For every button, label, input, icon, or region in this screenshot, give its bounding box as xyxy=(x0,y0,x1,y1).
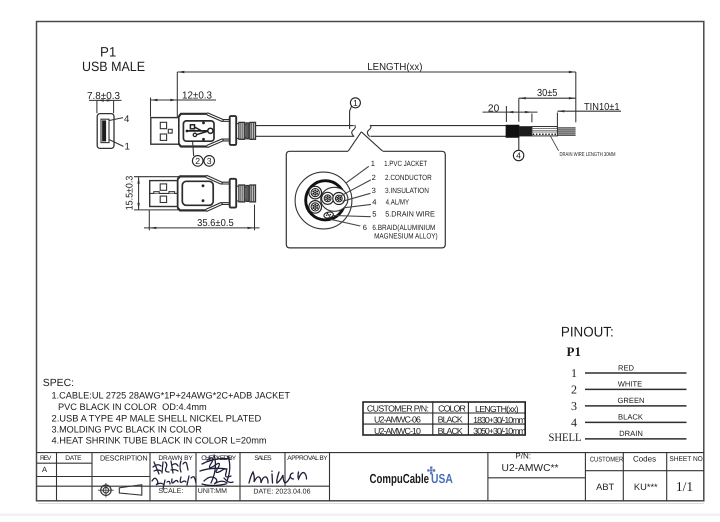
svg-text:DESCRIPTION: DESCRIPTION xyxy=(100,453,148,462)
overall dimension LENGTH(xx) xyxy=(177,62,576,123)
scale unit date xyxy=(158,488,310,496)
svg-text:SALES: SALES xyxy=(254,455,272,462)
svg-text:SHELL: SHELL xyxy=(549,432,582,444)
side view molded body outline xyxy=(178,176,207,210)
side view boot rib 2 xyxy=(246,186,249,202)
side view dimension 35.6±0.5 xyxy=(144,205,260,231)
side view screw dots xyxy=(202,184,205,202)
top view metal shell xyxy=(151,118,179,145)
svg-text:P/N:: P/N: xyxy=(515,452,531,461)
svg-text:30±5: 30±5 xyxy=(537,88,558,99)
balloon 4 xyxy=(513,150,523,160)
front view dimension 7.8±0.3 xyxy=(87,91,122,113)
svg-text:BLACK: BLACK xyxy=(438,415,463,425)
svg-text:SHEET NO.: SHEET NO. xyxy=(669,456,704,463)
third angle projection symbol xyxy=(98,483,142,497)
detail label 2 CONDUCTOR xyxy=(372,173,433,182)
side view boot rib 3 xyxy=(250,185,256,202)
side view inner moulding rect xyxy=(182,181,213,205)
svg-text:6: 6 xyxy=(363,223,367,232)
svg-text:BLACK: BLACK xyxy=(438,426,463,436)
svg-text:DRAIN WIRE LENGTH 30MM: DRAIN WIRE LENGTH 30MM xyxy=(560,152,616,158)
svg-text:1: 1 xyxy=(353,98,358,108)
svg-text:1: 1 xyxy=(125,142,130,153)
balloon 2 xyxy=(192,156,203,167)
cross-section pair wire 4 xyxy=(333,193,345,205)
svg-text:REV: REV xyxy=(40,455,52,462)
svg-text:4.AL/MY: 4.AL/MY xyxy=(386,197,410,206)
drain wire note xyxy=(560,152,616,158)
leader to molding callouts xyxy=(193,142,194,157)
rev A xyxy=(42,465,48,474)
svg-text:USA: USA xyxy=(431,471,453,486)
balloon 1 xyxy=(350,98,360,108)
side view metal shell xyxy=(150,181,178,207)
svg-text:LENGTH(xx): LENGTH(xx) xyxy=(367,62,422,73)
part number cell xyxy=(502,452,705,492)
SPEC text block xyxy=(43,378,290,446)
detail box xyxy=(286,151,445,248)
cross-section drain wire xyxy=(323,211,334,219)
cross-section conductor wire 1 xyxy=(309,186,322,199)
svg-text:2.USB A TYPE 4P MALE SHELL NIC: 2.USB A TYPE 4P MALE SHELL NICKEL PLATED xyxy=(52,412,262,423)
svg-text:2: 2 xyxy=(195,156,200,166)
svg-text:DATE: DATE xyxy=(65,455,82,462)
svg-text:CUSTOMER: CUSTOMER xyxy=(590,456,624,463)
PINOUT P1 xyxy=(567,344,581,359)
detail label 4 AL/MY xyxy=(372,197,409,206)
svg-text:3050+30/-10mm: 3050+30/-10mm xyxy=(473,426,526,436)
top view molded body outline xyxy=(179,114,208,147)
svg-text:5: 5 xyxy=(372,210,376,219)
svg-text:4: 4 xyxy=(571,416,577,430)
front view pin label 1 xyxy=(109,140,130,153)
detail label 6 BRAID xyxy=(363,223,438,241)
svg-text:DRAWN BY: DRAWN BY xyxy=(158,455,193,462)
balloon 1 leader xyxy=(350,106,352,129)
pinout pin 2 line WHITE xyxy=(571,380,687,397)
top view boot collar xyxy=(230,116,237,145)
dimension TIN10±1 xyxy=(557,102,621,126)
title block grid xyxy=(37,453,705,501)
balloon 3 xyxy=(204,156,215,167)
svg-text:3: 3 xyxy=(571,399,577,413)
svg-text:Codes: Codes xyxy=(633,455,656,464)
svg-text:2.CONDUCTOR: 2.CONDUCTOR xyxy=(385,173,432,182)
svg-text:SCALE:: SCALE: xyxy=(158,488,183,495)
detail label leaders xyxy=(330,166,371,226)
svg-text:4: 4 xyxy=(124,114,130,125)
svg-text:DRAIN: DRAIN xyxy=(619,429,643,438)
svg-text:4.HEAT SHRINK TUBE BLACK IN CO: 4.HEAT SHRINK TUBE BLACK IN COLOR L=20mm xyxy=(52,435,267,446)
top view screw dots xyxy=(202,122,205,141)
signature checked by xyxy=(200,455,233,486)
svg-text:PVC BLACK IN COLOR OD:4.4mm: PVC BLACK IN COLOR OD:4.4mm xyxy=(58,401,207,412)
dimension 30±5 xyxy=(519,88,576,122)
svg-text:P1: P1 xyxy=(567,344,581,359)
side view boot collar xyxy=(230,179,237,208)
top view USB trident logo xyxy=(186,125,213,137)
svg-text:SPEC:: SPEC: xyxy=(43,378,74,389)
pinout pin 3 line GREEN xyxy=(571,396,687,413)
svg-text:P1: P1 xyxy=(100,44,116,59)
side view boot rib 1 xyxy=(239,185,245,202)
side view boot groove lines xyxy=(236,186,250,201)
front view pin label 4 xyxy=(109,114,130,125)
svg-text:USB MALE: USB MALE xyxy=(82,59,145,74)
detail label 3 INSULATION xyxy=(372,186,429,195)
svg-text:35.6±0.5: 35.6±0.5 xyxy=(197,218,234,229)
svg-text:WHITE: WHITE xyxy=(618,380,642,389)
svg-text:PINOUT:: PINOUT: xyxy=(561,323,614,339)
exposed braid black xyxy=(519,126,532,136)
top view boot rib 2 xyxy=(246,123,249,139)
svg-text:UNIT:MM: UNIT:MM xyxy=(198,488,227,495)
svg-text:3: 3 xyxy=(372,186,376,195)
svg-text:U2-AMWC**: U2-AMWC** xyxy=(502,463,559,474)
svg-text:ABT: ABT xyxy=(596,482,614,492)
top view dimension 12±0.3 xyxy=(151,91,217,117)
front view USB A receptacle face xyxy=(97,114,114,149)
company logo CompuCableUSA xyxy=(370,467,454,487)
signature drawn by xyxy=(152,461,196,489)
tinned wire ends xyxy=(557,128,575,135)
svg-text:3.INSULATION: 3.INSULATION xyxy=(385,186,429,195)
signature sales hailan xyxy=(249,471,307,483)
balloon 4 leader xyxy=(518,138,520,151)
title block headers xyxy=(40,453,328,462)
pinout pin 1 line RED xyxy=(571,363,687,380)
svg-text:2: 2 xyxy=(372,173,376,182)
svg-text:2: 2 xyxy=(571,383,577,397)
heat shrink tube black xyxy=(506,125,519,138)
svg-text:U2-AMWC-10: U2-AMWC-10 xyxy=(374,426,421,436)
svg-text:GREEN: GREEN xyxy=(617,396,644,405)
svg-text:LENGTH(xx): LENGTH(xx) xyxy=(475,404,519,414)
svg-text:MAGNESIUM ALLOY): MAGNESIUM ALLOY) xyxy=(374,232,438,241)
detail label 1 PVC JACKET xyxy=(371,159,428,168)
svg-text:BLACK: BLACK xyxy=(618,413,643,422)
label USB MALE xyxy=(82,59,145,74)
svg-text:4: 4 xyxy=(516,151,521,161)
svg-text:3.MOLDING PVC BLACK IN COLOR: 3.MOLDING PVC BLACK IN COLOR xyxy=(52,423,203,434)
top view boot rib 1 xyxy=(239,122,245,139)
side view dimension 15.5±0.3 xyxy=(125,175,181,210)
svg-text:20: 20 xyxy=(488,103,500,114)
top view boot rib 3 xyxy=(250,122,256,139)
top view boot groove lines xyxy=(236,124,250,139)
cable right segment xyxy=(367,125,506,137)
svg-text:CompuCable: CompuCable xyxy=(370,471,430,486)
svg-text:DATE: 2023.04.06: DATE: 2023.04.06 xyxy=(253,488,310,495)
cross-section pair wire 3 xyxy=(322,192,334,204)
svg-text:U2-AMWC-06: U2-AMWC-06 xyxy=(374,415,421,425)
svg-text:3: 3 xyxy=(207,156,212,166)
cable left segment xyxy=(256,125,356,137)
svg-text:RED: RED xyxy=(618,363,635,372)
svg-text:1.PVC JACKET: 1.PVC JACKET xyxy=(384,159,427,168)
svg-text:6.BRAID(ALUMINIUM: 6.BRAID(ALUMINIUM xyxy=(372,223,435,232)
PINOUT heading xyxy=(561,323,614,339)
drain wire note leader xyxy=(551,136,559,151)
cross-section braid circle xyxy=(306,181,345,220)
sheet 1/1 xyxy=(676,479,693,494)
detail label 5 DRAIN WIRE xyxy=(372,210,435,219)
pinout SHELL line DRAIN xyxy=(549,429,687,444)
label P1 xyxy=(100,44,116,59)
svg-text:1.CABLE:UL 2725 28AWG*1P+24AWG: 1.CABLE:UL 2725 28AWG*1P+24AWG*2C+ADB JA… xyxy=(52,390,291,401)
cross-section conductor wire 2 xyxy=(309,201,322,214)
svg-text:4: 4 xyxy=(372,197,376,206)
cross-section PVC jacket circle xyxy=(295,172,352,229)
svg-text:5.DRAIN WIRE: 5.DRAIN WIRE xyxy=(385,210,435,219)
foil shield section xyxy=(532,127,558,136)
pinout pin 4 line BLACK xyxy=(571,413,687,430)
svg-text:COLOR: COLOR xyxy=(438,404,466,414)
svg-text:1830+30/-10mm: 1830+30/-10mm xyxy=(473,415,526,425)
svg-text:1: 1 xyxy=(371,159,375,168)
svg-text:CUSTOMER P/N:: CUSTOMER P/N: xyxy=(367,404,429,414)
svg-text:KU***: KU*** xyxy=(634,482,658,492)
svg-text:1/1: 1/1 xyxy=(676,479,693,494)
top view inner moulding rect xyxy=(183,121,214,141)
customer part number table xyxy=(363,402,525,435)
detail funnel lines xyxy=(348,132,383,152)
dimension 20 xyxy=(483,103,538,122)
cross-section AL/MY foil ellipse xyxy=(321,187,348,211)
svg-text:15.5±0.3: 15.5±0.3 xyxy=(125,175,136,210)
svg-text:1: 1 xyxy=(571,366,577,380)
svg-text:APPROVAL BY: APPROVAL BY xyxy=(287,455,328,462)
